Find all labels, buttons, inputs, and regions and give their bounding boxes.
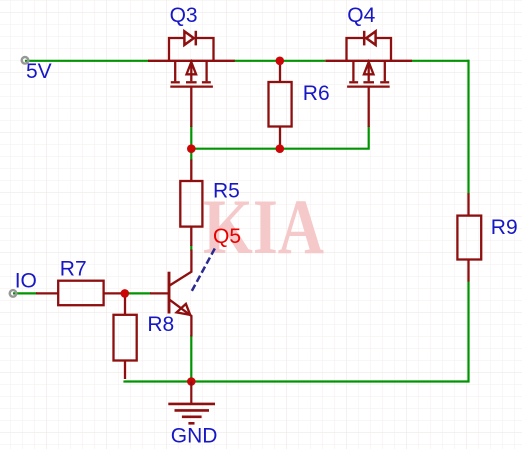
svg-text:R7: R7 (60, 257, 87, 280)
transistor Q3 (P-MOSFET with body diode) (148, 31, 235, 127)
svg-text:Q5: Q5 (213, 225, 241, 248)
resistor R9 (457, 193, 481, 281)
node junction on 5V rail at R6 (276, 57, 285, 66)
wire bottom rail left to R8 (125, 381, 193, 382)
resistor R8 (114, 294, 137, 379)
wire IO to R7 (13, 292, 37, 294)
port 5V terminal dot (22, 57, 29, 64)
wire Q3 gate to node A (190, 126, 192, 150)
node junction base at R8 (121, 289, 130, 298)
transistor Q4 (P-MOSFET with body diode, mirrored) (325, 31, 412, 127)
resistor R6 (269, 62, 292, 147)
resistor R5 (180, 160, 202, 247)
wire Q4 drain to right rail (412, 60, 470, 62)
wire R5 to Q5 collector (190, 245, 192, 251)
wire node A to Q4 gate (190, 126, 368, 149)
node junction bottom rail at GND (187, 377, 196, 386)
svg-text:R6: R6 (303, 82, 330, 105)
wire Q5 emitter to bottom rail (190, 335, 192, 383)
wire R7 to Q5 base (124, 292, 152, 294)
wire R9 to bottom rail (190, 281, 468, 382)
svg-text:Q4: Q4 (347, 4, 375, 27)
wire 5V to Q3 source (25, 60, 149, 62)
node A junction (gate node left) (187, 144, 196, 153)
svg-text:R8: R8 (147, 313, 174, 336)
port IO terminal dot (10, 290, 17, 297)
transistor Q5 (NPN BJT) (150, 250, 191, 337)
ground GND symbol (168, 382, 215, 424)
resistor R7 (36, 281, 125, 306)
wire node A to R5 (190, 148, 192, 161)
svg-text:R5: R5 (213, 180, 240, 203)
svg-text:5V: 5V (26, 60, 52, 83)
svg-text:IO: IO (15, 270, 37, 293)
node junction gate node at R6 (276, 144, 285, 153)
dashed leader line Q5 (192, 249, 215, 292)
wire Q3 drain to Q4 source (234, 60, 325, 62)
svg-text:Q3: Q3 (170, 4, 198, 27)
wire right rail down to R9 (467, 60, 469, 194)
svg-text:GND: GND (171, 424, 218, 447)
svg-text:R9: R9 (491, 216, 518, 239)
